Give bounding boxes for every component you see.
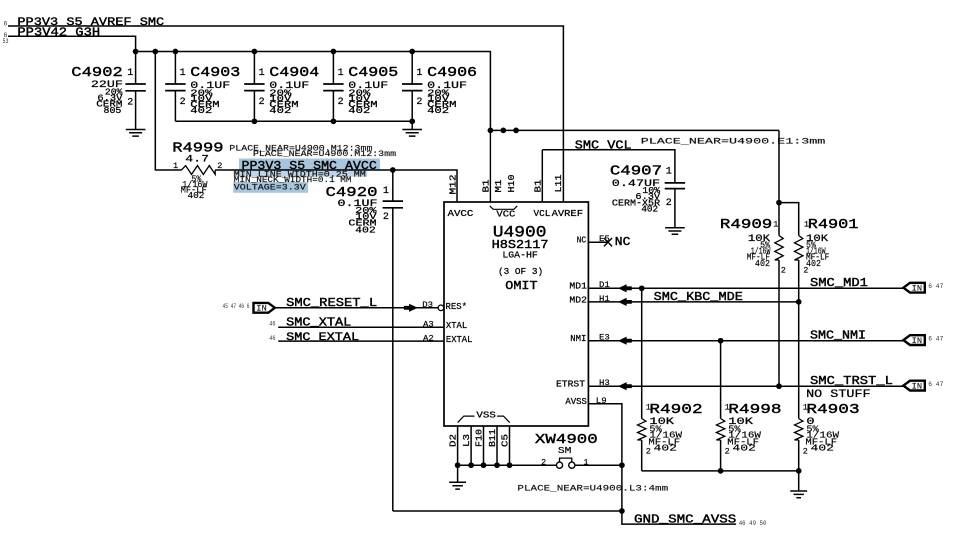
svg-text:2: 2 xyxy=(803,266,808,276)
svg-text:R4909: R4909 xyxy=(720,217,772,233)
svg-text:46: 46 xyxy=(269,320,276,328)
svg-text:805: 805 xyxy=(104,105,122,116)
svg-text:6 47: 6 47 xyxy=(928,335,943,342)
highlight MIN_LINE_WIDTH xyxy=(233,171,367,177)
svg-text:45 47 46 6: 45 47 46 6 xyxy=(223,302,250,310)
svg-text:C4906: C4906 xyxy=(427,64,477,80)
resistor R4998 xyxy=(716,419,724,441)
wire AVCC node xyxy=(390,167,396,173)
U4900 pin E5 NC no-connect xyxy=(588,241,607,243)
wire jumper to AVSS node xyxy=(575,464,622,466)
svg-text:OMIT: OMIT xyxy=(505,279,538,293)
junction MD1 to R4902 xyxy=(639,285,645,291)
svg-text:PLACE_NEAR=U4900.M12:3mm: PLACE_NEAR=U4900.M12:3mm xyxy=(253,149,396,159)
ground under resistor rail xyxy=(798,471,800,491)
resistor R4903 xyxy=(795,419,803,441)
resistor R4909 xyxy=(775,236,783,261)
svg-text:46: 46 xyxy=(269,335,276,343)
svg-text:NMI: NMI xyxy=(570,333,586,344)
svg-text:C4905: C4905 xyxy=(348,64,398,80)
svg-text:B1: B1 xyxy=(534,180,544,193)
svg-text:2: 2 xyxy=(383,212,389,223)
resistor R4901 xyxy=(795,236,803,261)
svg-text:C4903: C4903 xyxy=(190,64,240,80)
svg-text:402: 402 xyxy=(755,259,770,269)
svg-text:IN: IN xyxy=(912,284,923,294)
wire SMC_EXTAL to pin A2 EXTAL xyxy=(278,340,444,342)
resistor R4999 xyxy=(155,52,181,171)
svg-text:402: 402 xyxy=(269,106,291,116)
capacitor C4907 xyxy=(665,183,685,189)
svg-text:D2: D2 xyxy=(449,434,459,447)
svg-text:(3 OF 3): (3 OF 3) xyxy=(498,266,543,277)
IC U4900 body xyxy=(444,202,588,426)
svg-text:402: 402 xyxy=(188,190,205,201)
svg-text:NO STUFF: NO STUFF xyxy=(806,388,870,401)
svg-text:1: 1 xyxy=(259,68,265,79)
U4900 pin H1 MD2 wire SMC_KBC_MDE xyxy=(588,301,798,303)
junction dots caps bottom rail xyxy=(252,118,258,124)
svg-text:AVREF: AVREF xyxy=(552,208,583,218)
svg-text:H1: H1 xyxy=(599,294,610,304)
svg-text:2: 2 xyxy=(646,446,651,456)
svg-text:PLACE_NEAR=U4900.L3:4mm: PLACE_NEAR=U4900.L3:4mm xyxy=(517,483,668,493)
svg-text:SMC_MD1: SMC_MD1 xyxy=(810,276,868,290)
svg-text:L9: L9 xyxy=(596,396,607,406)
svg-text:H3: H3 xyxy=(599,378,610,388)
svg-text:402: 402 xyxy=(355,225,376,236)
svg-text:VSS: VSS xyxy=(476,411,495,421)
svg-text:402: 402 xyxy=(427,106,449,116)
svg-text:A3: A3 xyxy=(423,320,434,330)
svg-text:SM: SM xyxy=(558,447,571,457)
svg-text:VOLTAGE=3.3V: VOLTAGE=3.3V xyxy=(234,182,306,192)
svg-text:AVSS: AVSS xyxy=(565,396,587,407)
svg-text:L3: L3 xyxy=(463,434,473,447)
capacitor C4905 xyxy=(332,52,334,85)
wire top rail to VCC rail xyxy=(136,52,491,131)
svg-text:C5: C5 xyxy=(501,434,511,447)
wire VCC rail xyxy=(490,129,779,131)
capacitor C4902 xyxy=(135,52,137,85)
svg-text:2: 2 xyxy=(781,266,786,276)
svg-text:LGA-HF: LGA-HF xyxy=(502,250,538,261)
U4900 pin L9 AVSS wire xyxy=(588,404,622,465)
svg-text:2: 2 xyxy=(338,97,344,108)
port IN SMC_NMI xyxy=(903,335,924,345)
svg-text:MD2: MD2 xyxy=(569,295,587,306)
wire caps bottom rail xyxy=(175,120,412,122)
svg-text:AVCC: AVCC xyxy=(448,209,474,219)
svg-text:B1: B1 xyxy=(482,180,492,193)
svg-text:46 49 50: 46 49 50 xyxy=(739,520,767,527)
svg-text:SMC_KBC_MDE: SMC_KBC_MDE xyxy=(654,291,743,304)
wire bottom rail xyxy=(393,465,622,511)
svg-text:1: 1 xyxy=(583,458,588,468)
svg-text:XW4900: XW4900 xyxy=(535,432,598,448)
svg-text:53: 53 xyxy=(3,37,9,45)
capacitor C4906 xyxy=(411,52,413,85)
ground under C4906 xyxy=(411,121,413,129)
wire PP3V42_G3H down to rail xyxy=(8,36,136,51)
svg-text:SMC_TRST_L: SMC_TRST_L xyxy=(810,374,893,388)
svg-text:6 47: 6 47 xyxy=(928,381,943,388)
svg-text:D1: D1 xyxy=(599,280,610,290)
svg-text:2: 2 xyxy=(666,198,672,209)
highlight VOLTAGE=3.3V xyxy=(233,182,308,193)
wire SMC_VCL xyxy=(542,150,675,183)
svg-text:E3: E3 xyxy=(599,333,610,343)
svg-text:6 47: 6 47 xyxy=(928,283,943,290)
svg-text:H10: H10 xyxy=(506,174,517,192)
svg-text:PLACE_NEAR=U4900.E1:3mm: PLACE_NEAR=U4900.E1:3mm xyxy=(641,138,826,147)
svg-text:402: 402 xyxy=(190,106,212,116)
U4900 pin D1 MD1 wire SMC_MD1 xyxy=(588,287,903,289)
svg-text:2: 2 xyxy=(541,458,546,468)
U4900 pin E3 NMI wire SMC_NMI xyxy=(588,340,903,342)
svg-text:402: 402 xyxy=(732,444,755,454)
svg-text:A2: A2 xyxy=(423,334,434,344)
svg-text:NC: NC xyxy=(615,236,631,249)
svg-text:L11: L11 xyxy=(553,174,564,192)
wire KBC_MDE to R4903 xyxy=(798,302,800,419)
svg-text:D3: D3 xyxy=(422,300,433,310)
port IN SMC_RESET_L xyxy=(254,303,275,313)
svg-text:M12: M12 xyxy=(448,175,459,195)
svg-text:C4904: C4904 xyxy=(269,64,319,80)
highlight PP3V3_S5_SMC_AVCC xyxy=(239,159,380,170)
svg-text:1: 1 xyxy=(180,68,186,79)
svg-text:RES*: RES* xyxy=(446,301,467,312)
wire SMC_RESET_L to pin D3 RES* xyxy=(275,307,438,309)
svg-text:1: 1 xyxy=(173,161,178,171)
svg-text:1: 1 xyxy=(127,68,133,79)
svg-text:VCC: VCC xyxy=(496,210,515,220)
VCC brace xyxy=(490,206,518,209)
svg-text:IN: IN xyxy=(912,336,923,346)
port IN SMC_MD1 xyxy=(903,283,924,293)
RES* active-low bubble xyxy=(438,305,444,311)
svg-text:IN: IN xyxy=(256,304,267,314)
wire VCC to R4909/R4901 xyxy=(778,130,780,235)
U4900 pin H3 ETRST wire SMC_TRST_L xyxy=(588,385,903,387)
svg-text:NC: NC xyxy=(577,235,587,246)
svg-text:402: 402 xyxy=(811,444,834,454)
U4900 VSS pins D2 L3 F10 B11 C5 xyxy=(457,426,459,465)
svg-text:SMC_NMI: SMC_NMI xyxy=(810,329,866,342)
svg-text:402: 402 xyxy=(348,106,370,116)
svg-text:MD1: MD1 xyxy=(569,281,587,292)
svg-text:ETRST: ETRST xyxy=(556,379,585,390)
svg-text:1: 1 xyxy=(666,167,672,178)
wire NMI to R4998 xyxy=(720,341,722,419)
junction NMI to R4998 xyxy=(718,338,724,344)
svg-text:B11: B11 xyxy=(487,429,498,447)
wire VSS rail xyxy=(458,464,557,466)
ground under C4902 xyxy=(126,130,146,137)
svg-text:2: 2 xyxy=(416,97,422,108)
capacitor C4920 xyxy=(392,170,394,201)
svg-text:2: 2 xyxy=(259,97,265,108)
junction dots top rail xyxy=(133,49,139,55)
svg-text:F10: F10 xyxy=(474,429,485,447)
svg-text:R4901: R4901 xyxy=(808,216,859,232)
capacitor C4904 xyxy=(253,52,255,85)
svg-text:M1: M1 xyxy=(495,180,505,193)
svg-text:6: 6 xyxy=(4,21,8,28)
wire bottom resistor rail xyxy=(642,470,799,472)
wire PP3V3_S5_AVREF_SMC to AVREF pin L11 xyxy=(8,26,563,202)
svg-text:VCL: VCL xyxy=(534,208,551,219)
svg-text:2: 2 xyxy=(180,97,186,108)
resistor R4902 xyxy=(638,419,646,441)
junction TRST to R4909 xyxy=(776,383,782,389)
port IN SMC_TRST_L xyxy=(903,381,924,391)
svg-text:IN: IN xyxy=(912,382,923,392)
svg-text:2: 2 xyxy=(803,446,808,456)
svg-text:EXTAL: EXTAL xyxy=(446,334,472,345)
svg-text:402: 402 xyxy=(641,204,658,215)
junction dots VCC rail xyxy=(488,128,494,134)
svg-text:2: 2 xyxy=(725,446,730,456)
svg-text:4.7: 4.7 xyxy=(185,153,209,165)
svg-text:GND_SMC_AVSS: GND_SMC_AVSS xyxy=(634,513,737,526)
svg-text:2: 2 xyxy=(217,161,222,171)
svg-text:1: 1 xyxy=(416,68,422,79)
svg-text:1: 1 xyxy=(338,68,344,79)
wire MD1 to R4902 xyxy=(641,288,643,418)
svg-text:1: 1 xyxy=(383,186,389,197)
junction KBC_MDE R4901/R4903 xyxy=(796,299,802,305)
wire SMC_XTAL to pin A3 XTAL xyxy=(278,326,444,328)
ground under VSS rail xyxy=(457,465,459,482)
wire GND_SMC_AVSS stub xyxy=(622,511,736,524)
svg-text:402: 402 xyxy=(654,444,677,454)
capacitor C4903 xyxy=(174,52,176,85)
svg-text:2: 2 xyxy=(127,98,133,109)
svg-text:XTAL: XTAL xyxy=(446,320,467,331)
U4900 pin M12 AVCC xyxy=(489,130,491,202)
U4900 pin B1 VCL xyxy=(541,150,543,202)
VSS brace and label xyxy=(458,416,510,423)
svg-text:1: 1 xyxy=(773,220,778,230)
